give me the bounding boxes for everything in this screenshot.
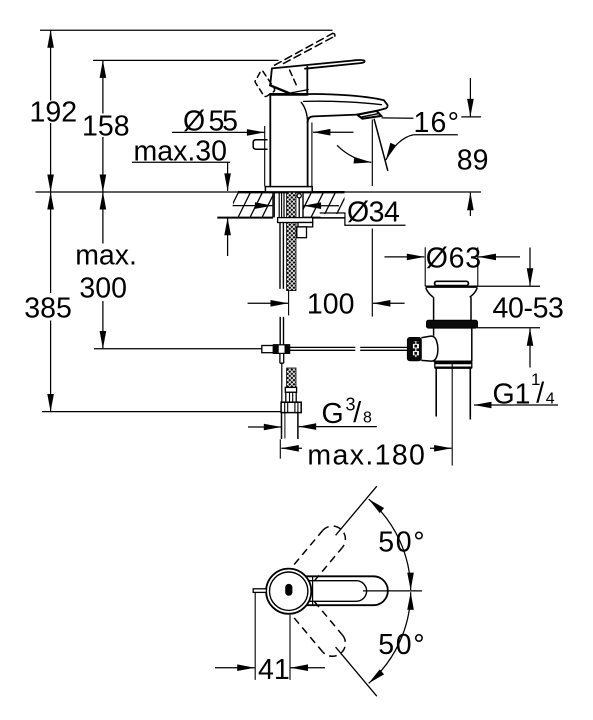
svg-text:G: G bbox=[322, 398, 344, 430]
svg-text:Ø 55: Ø 55 bbox=[183, 106, 238, 138]
svg-text:40-53: 40-53 bbox=[493, 293, 564, 325]
svg-text:Ø63: Ø63 bbox=[426, 243, 481, 275]
svg-text:192: 192 bbox=[30, 97, 78, 129]
svg-text:8: 8 bbox=[363, 410, 372, 427]
svg-text:158: 158 bbox=[82, 111, 130, 143]
svg-text:89: 89 bbox=[457, 144, 489, 176]
svg-text:/: / bbox=[353, 397, 361, 429]
svg-text:41: 41 bbox=[258, 654, 290, 686]
svg-text:4: 4 bbox=[546, 391, 555, 408]
svg-text:max.180: max.180 bbox=[307, 440, 425, 472]
svg-text:/: / bbox=[536, 377, 544, 409]
svg-text:50°: 50° bbox=[378, 629, 424, 661]
svg-text:G1: G1 bbox=[493, 379, 531, 411]
svg-text:16°: 16° bbox=[414, 107, 460, 139]
svg-text:max.: max. bbox=[75, 239, 137, 271]
svg-text:300: 300 bbox=[79, 272, 127, 304]
svg-text:100: 100 bbox=[307, 288, 355, 320]
svg-text:Ø34: Ø34 bbox=[347, 197, 400, 229]
svg-text:max.30: max.30 bbox=[134, 136, 228, 168]
svg-text:50°: 50° bbox=[378, 527, 424, 559]
svg-text:385: 385 bbox=[24, 292, 72, 324]
